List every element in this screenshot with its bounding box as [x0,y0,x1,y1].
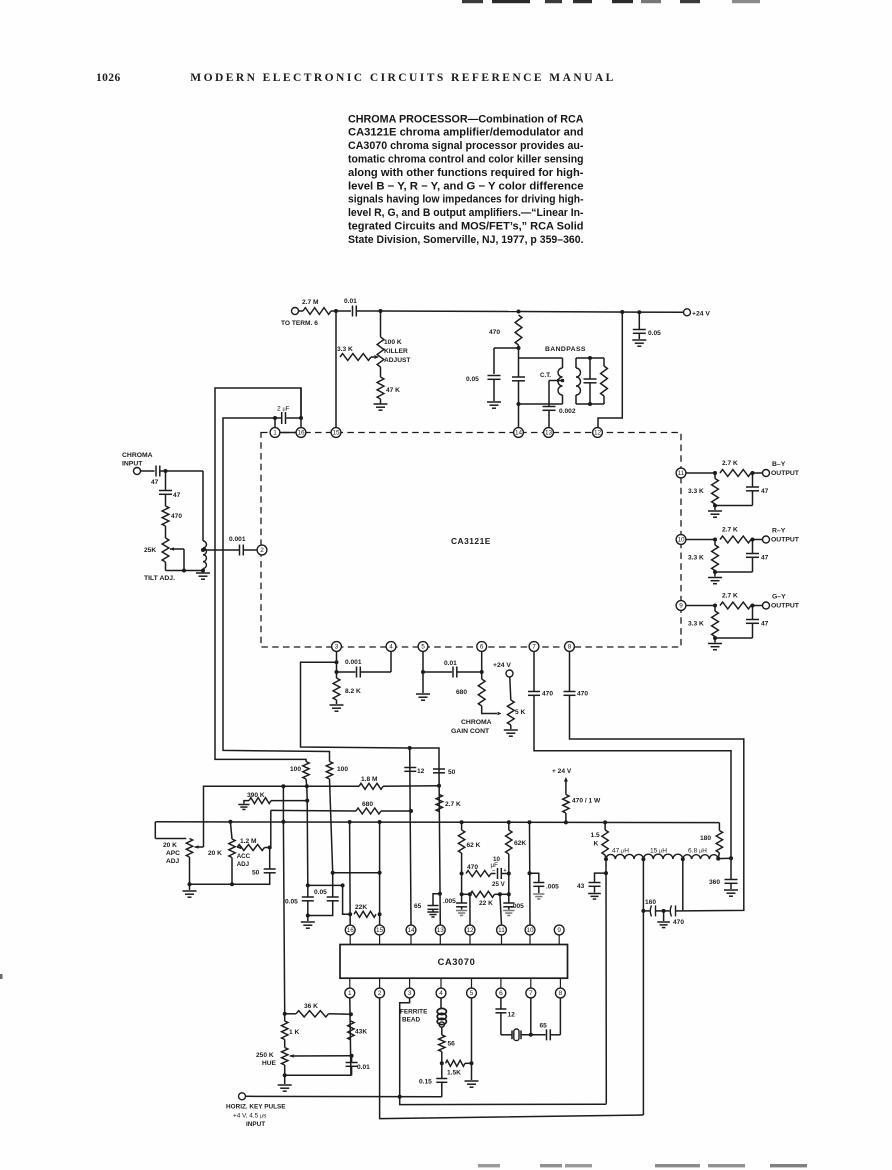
wire [271,800,307,802]
node junction B-Y bottom [713,504,717,508]
wire pin5 down [422,651,424,672]
inductor 47uH [606,854,643,859]
inductor 6.8uH [683,855,718,859]
wire [441,1027,443,1035]
wire bus left end to APC [154,822,156,839]
resistor 3.3K G-Y [714,606,716,612]
svg-text:7: 7 [529,990,533,997]
svg-text:43K: 43K [355,1029,367,1036]
node junction B-Y right [751,471,755,475]
wire APC wiper riser [204,786,284,847]
svg-text:12: 12 [594,430,602,437]
wire [165,494,167,506]
IC CA3070 top pin 15 [375,925,385,935]
node junction 1.8M right [437,784,441,788]
IC pin 10 [676,535,686,545]
IC CA3070 top pin 13 [435,925,445,935]
ground R-Y [714,572,716,577]
wire 43 stub [604,871,608,875]
ground under rail bypass [632,339,646,341]
svg-text:47: 47 [173,492,181,499]
node junction bus-283 [281,820,285,824]
IC pin 2 [257,545,267,555]
wire [265,847,271,849]
svg-text:6.8 μH: 6.8 μH [688,848,707,855]
node junction gnd killer [306,914,310,918]
wire [562,395,564,404]
svg-text:0.01: 0.01 [344,298,357,305]
IC pin 13 [544,428,554,438]
wire [336,700,338,704]
resistor 470/1W [563,795,569,814]
svg-text:470: 470 [673,919,684,926]
IC pin 5 [418,642,428,652]
IC pin 8 [565,642,575,652]
svg-text:FERRITE: FERRITE [400,1009,428,1016]
wire 680 row [271,809,356,812]
svg-text:12: 12 [508,1012,516,1019]
ground .005c [533,893,544,895]
node junction G-Y right [751,604,755,608]
node junction 0.05 acc [460,892,464,896]
wire [604,855,607,859]
node junction pin10-.005 [528,871,532,875]
svg-text:ADJ: ADJ [237,861,250,868]
svg-text:13: 13 [545,430,553,437]
node junction 470 bottom [517,346,521,350]
svg-text:2.7 K: 2.7 K [722,593,738,600]
wire pin to R-Y network [686,539,715,541]
IC pin 15 [331,428,341,438]
svg-text:2: 2 [260,547,264,554]
svg-text:62 K: 62 K [467,842,481,849]
svg-text:50: 50 [448,769,456,776]
capacitor 0.05 killer-1 [307,885,309,897]
node junction 160 row [641,909,645,913]
wire [501,1034,512,1036]
svg-text:65: 65 [414,903,422,910]
IC pin 9 [676,601,686,611]
wire pin 13 lead [548,410,550,427]
wire [380,399,382,404]
svg-text:1.2 M: 1.2 M [240,838,257,845]
capacitor 65 pin13 [438,892,442,896]
capacitor 47 B-Y [752,473,754,487]
resistor 2.7K R-Y [720,536,751,543]
svg-text:OUTPUT: OUTPUT [771,603,800,610]
svg-text:INPUT: INPUT [122,461,143,468]
wire pin3 left loop start [301,662,440,769]
svg-text:OUTPUT: OUTPUT [771,537,800,544]
ground 390K [238,804,249,806]
capacitor .005 c [530,873,539,882]
node junction 470 top [517,310,521,314]
svg-text:20 K: 20 K [208,850,222,857]
wire [562,358,564,368]
svg-text:TILT ADJ.: TILT ADJ. [144,575,175,582]
resistor 1.8M [359,783,383,789]
wire bottom rail left [190,883,271,885]
svg-text:ADJUST: ADJUST [384,357,410,364]
ground .005b [503,910,514,912]
svg-text:470 / 1 W: 470 / 1 W [572,798,601,805]
svg-text:10: 10 [526,927,534,934]
svg-text:R–Y: R–Y [772,528,786,535]
resistor 1.2M [237,846,241,850]
bottom edge remnants [478,1164,500,1167]
resistor 2.7M [303,308,331,315]
wire hue feed vertical [282,786,284,822]
svg-text:1 K: 1 K [289,1029,299,1036]
main bus wire y=822 [155,821,719,824]
wire [305,779,308,786]
ground under 47K [374,403,388,405]
svg-text:BEAD: BEAD [402,1017,420,1024]
node junction bus-470/1W [564,820,568,824]
potentiometer 100K KILLER ADJUST [380,311,382,337]
IC pin 7 [529,642,539,652]
svg-text:47 K: 47 K [386,387,400,394]
svg-text:22 K: 22 K [479,900,493,907]
terminal chroma input [134,468,141,475]
svg-text:K: K [594,841,599,848]
svg-text:100 K: 100 K [384,339,402,346]
svg-text:14: 14 [407,927,415,934]
svg-text:4: 4 [389,644,393,651]
svg-text:GAIN CONT: GAIN CONT [451,728,490,735]
svg-text:9: 9 [557,927,561,934]
node junction 470-10uF right [507,872,511,876]
svg-text:tegrated Circuits and MOS/FET’: tegrated Circuits and MOS/FET’s,” RCA So… [348,221,584,233]
capacitor 0.001 input [239,545,241,556]
IC pin 16 [296,428,306,438]
wire pin to B-Y network [686,472,715,474]
node junction bus-pin16line [348,820,352,824]
IC pin 1 [270,428,280,438]
resistor 36K [296,1011,329,1017]
node junction pin3 [335,660,339,664]
node junction 56-1.5K [440,1061,444,1065]
wire stub-a to pin15 line [333,872,380,874]
capacitor 0.05 acc [461,894,463,903]
capacitor 470 bottom [664,910,670,912]
resistor 470 acc [466,871,491,877]
wire pin 12 feed [598,312,622,428]
resistor 3.3K [340,354,371,361]
wire pin16 line [349,822,352,925]
node junction pin1 top [273,416,277,420]
node junction 390K [305,799,309,803]
wire 680 to wiper [482,706,497,714]
svg-text:47: 47 [761,555,769,562]
IC CA3070 bottom pin 8 [559,978,561,988]
svg-text:15: 15 [376,927,384,934]
resistor 680 [481,672,483,679]
IC CA3070 box [340,945,568,979]
IC CA3070 bottom pin 3 [409,978,411,988]
wire mid vertical 643 [642,859,644,1115]
svg-text:−: − [492,868,495,874]
svg-text:14: 14 [515,430,523,437]
wire pin2 drop [380,998,644,1119]
node junction G-Y bottom [713,636,717,640]
node junction 0.05-1 top [306,883,310,887]
svg-text:7: 7 [532,644,536,651]
IC CA3121E dashed outline [261,433,681,648]
wire pin12 line [468,892,472,896]
capacitor 0.002 [543,406,556,408]
svg-text:250 K: 250 K [256,1052,274,1059]
capacitor 0.01 pins 5-6 [423,671,452,673]
ground pin5 bottom [465,1080,479,1082]
IC CA3070 bottom pin 6 [500,978,502,988]
svg-text:62K: 62K [514,840,526,847]
IC pin 12 [593,428,603,438]
wiper arrow into 100K [371,356,375,358]
node junction pin6 [480,670,484,674]
wire [493,379,495,401]
wire [550,1034,560,1036]
svg-text:100: 100 [290,766,301,773]
svg-text:3.3 K: 3.3 K [688,621,704,628]
svg-text:signals having low impedances: signals having low impedances for drivin… [348,194,584,206]
svg-text:CHROMA PROCESSOR—Combination o: CHROMA PROCESSOR—Combination of RCA [348,113,584,125]
terminal R-Y output [763,536,770,543]
svg-text:+ 24 V: + 24 V [552,768,572,775]
node junction ind3 [681,857,685,861]
transformer secondary winding [575,358,577,368]
svg-text:470: 470 [467,864,478,871]
wire pin10 line [529,822,532,925]
svg-text:0.01: 0.01 [357,1064,370,1071]
wire pin8 down [569,651,571,691]
svg-text:CHROMA: CHROMA [122,452,153,459]
wire [275,417,281,419]
potentiometer 5K CHROMA GAIN CONT [507,700,514,725]
svg-text:OUTPUT: OUTPUT [771,470,800,477]
svg-text:8.2 K: 8.2 K [345,688,361,695]
ground 65 [427,911,438,913]
resistor 100 left [303,762,309,780]
node junction 680 right [409,809,413,813]
resistor 180 [718,823,720,831]
wire [330,779,333,873]
node junction R-Y left [713,538,717,542]
svg-text:CA3121E: CA3121E [451,536,491,546]
potentiometer 250K HUE [284,1040,286,1048]
resistor 3.3K R-Y [714,540,716,546]
resistor 100 right [326,762,332,780]
node junction bus-pin15line [378,820,382,824]
wire +24V rail [381,310,519,313]
ground hue [278,1084,292,1086]
capacitor 47 series [155,466,157,477]
wire [510,677,511,700]
wire hue bottom [284,1065,286,1075]
wire [299,310,304,312]
svg-text:.005: .005 [443,898,456,905]
terminal G-Y output [763,602,770,609]
svg-text:65: 65 [540,1023,548,1030]
wire [165,526,167,538]
svg-text:680: 680 [362,801,373,808]
wire center tap [549,380,561,382]
svg-text:1.8 M: 1.8 M [361,776,378,783]
wire pin4 down [390,651,392,672]
svg-text:12: 12 [417,768,425,775]
svg-text:5: 5 [421,644,425,651]
svg-text:3: 3 [335,644,339,651]
svg-text:16: 16 [347,927,355,934]
svg-text:43: 43 [577,883,585,890]
resistor secondary damping [603,358,605,366]
capacitor 360 [730,858,732,879]
svg-text:ACC: ACC [237,853,251,860]
svg-text:20 K: 20 K [163,842,177,849]
svg-text:2.7 K: 2.7 K [722,527,738,534]
svg-text:11: 11 [498,927,505,934]
wire pin1 loop [223,418,330,762]
capacitor 12 pin6 [500,998,502,1009]
svg-text:15: 15 [332,430,340,437]
svg-text:INPUT: INPUT [246,1121,265,1128]
svg-text:0.01: 0.01 [444,660,457,667]
wire pin7 down [533,651,535,691]
wire [283,785,359,787]
wire [441,1052,443,1064]
node junction primary bottom [517,402,521,406]
node junction 36K left [283,1012,287,1016]
capacitor 0.15 [441,1063,443,1078]
wire pin7 drop [530,998,532,1035]
svg-text:2 μF: 2 μF [277,406,290,413]
svg-text:.005: .005 [546,884,559,891]
capacitor .005 b [508,894,510,903]
resistor 2.7K mid [436,795,442,812]
IC CA3070 bottom pin 5 [471,978,473,988]
resistor 470 input [162,506,169,526]
IC CA3070 bottom pin 4 [440,978,442,988]
wire pin 14 lead [518,404,520,428]
svg-text:HORIZ. KEY PULSE: HORIZ. KEY PULSE [226,1104,286,1111]
svg-text:0.05: 0.05 [314,889,327,896]
node junction 22K left [348,912,352,916]
capacitor 50 mid [433,768,445,770]
node junction ACC bottom [230,882,234,886]
resistor 56 [439,1035,445,1052]
svg-text:180: 180 [700,835,711,842]
svg-text:12: 12 [466,927,474,934]
node junction 0.05 rail [637,310,641,314]
wire killer line down [306,786,308,800]
svg-text:10: 10 [677,537,685,544]
wire to 0.05 [494,347,519,349]
wire [356,310,380,312]
IC CA3070 bottom pin 7 [530,978,532,988]
node junction input [164,469,168,473]
crystal resonator [511,1031,513,1040]
ground acc [456,910,467,912]
node junction R-Y bottom [713,570,717,574]
svg-text:2.7 K: 2.7 K [445,801,461,808]
capacitor 160 [643,910,649,912]
svg-text:tomatic chroma control and col: tomatic chroma control and color killer … [348,154,584,166]
ground under pin5 [416,693,430,695]
svg-text:HUE: HUE [262,1060,277,1067]
wire pin6 down [481,651,483,672]
svg-text:3.3 K: 3.3 K [688,555,704,562]
wire [718,857,731,859]
wire killer to 22K [343,885,351,914]
terminal +24V top [684,309,691,316]
svg-text:2: 2 [378,990,382,997]
node junction wiper-43K [350,1054,354,1058]
node junction coil tap [201,548,205,552]
svg-text:G–Y: G–Y [772,594,786,601]
svg-text:360: 360 [709,879,720,886]
wire pin14 line [410,748,411,925]
svg-text:47: 47 [151,479,159,486]
svg-text:13: 13 [437,927,445,934]
wire bandpass secondary top [576,357,604,359]
wire [165,562,167,571]
resistor 1.5K mid [604,822,606,830]
node junction 36K right [349,1012,353,1016]
svg-text:0.002: 0.002 [559,408,576,415]
node junction 1.5K-pin5 [470,1061,474,1065]
ground B-Y [714,506,716,511]
ground killer [307,916,309,922]
svg-text:680: 680 [456,689,467,696]
svg-text:470: 470 [489,329,500,336]
svg-text:0.001: 0.001 [345,659,362,666]
svg-text:470: 470 [171,513,182,520]
wire [753,605,763,607]
wire bandpass primary top [519,357,563,359]
svg-text:3: 3 [408,990,412,997]
svg-text:C.T.: C.T. [540,372,551,379]
resistor 470 bandpass feed [515,315,522,345]
wire pin8 to far right drop [570,695,744,911]
node junction ind2 [641,857,645,861]
wire mid vertical 606 [605,859,607,1104]
wire pin15 line [379,822,381,925]
wire key pulse [246,1095,442,1098]
svg-text:47 μH: 47 μH [612,848,629,855]
wire pin5 drop [471,998,473,1080]
svg-text:390 K: 390 K [247,792,265,799]
capacitor 10uF 25V polarized [491,873,496,875]
svg-text:ADJ: ADJ [166,858,180,865]
svg-text:47: 47 [761,621,769,628]
capacitor 47 G-Y [752,606,754,620]
svg-text:TO TERM. 6: TO TERM. 6 [281,320,318,327]
IC pin 6 [477,642,487,652]
IC CA3070 top pin 12 [465,925,475,935]
svg-text:MODERN ELECTRONIC CIRCUITS REF: MODERN ELECTRONIC CIRCUITS REFERENCE MAN… [190,72,615,84]
node junction 22K-acc right [507,892,511,896]
resistor 390K [249,798,271,804]
svg-text:2.7 M: 2.7 M [302,299,319,306]
left page-edge blemish [0,974,3,979]
svg-text:0.05: 0.05 [648,330,661,337]
wire pin to G-Y network [686,605,715,607]
ground G-Y [714,638,716,643]
IC CA3070 top pin 10 [525,925,535,935]
capacitor 43 [589,882,601,884]
transformer primary winding [558,368,563,395]
capacitor 50 ACC [264,868,276,870]
